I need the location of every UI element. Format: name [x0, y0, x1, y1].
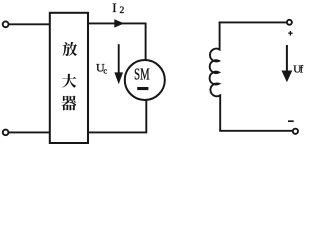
label da (amplifier text)	[62, 74, 76, 88]
motor U2 circle SM	[125, 60, 165, 100]
voltage arrow Uf	[286, 45, 288, 72]
svg-text:I: I	[112, 0, 116, 15]
motor minus-polarity bar	[137, 87, 148, 90]
svg-text:SM: SM	[134, 65, 150, 84]
polarity + at top-right terminal	[288, 31, 292, 36]
current arrow I2 on wire	[114, 19, 124, 27]
svg-text:c: c	[103, 65, 107, 75]
wire: inductor top to terminal +	[220, 21, 287, 23]
wire: inductor bottom to terminal -	[220, 130, 292, 132]
wire: bottom-left terminal to amplifier	[9, 131, 49, 133]
voltage arrow Uc	[118, 44, 120, 74]
inductor L1 feedback winding	[210, 22, 221, 130]
polarity - at bottom-right terminal	[288, 120, 294, 122]
wire: SM motor bottom to amplifier	[88, 101, 146, 132]
wire: amplifier output to SM motor top	[89, 23, 146, 59]
svg-text:2: 2	[120, 6, 125, 16]
label qi (amplifier text)	[61, 96, 76, 111]
terminal: top-right output +	[287, 20, 292, 25]
terminal: bottom-left input	[3, 130, 9, 136]
terminal: bottom-right output -	[293, 129, 298, 134]
amplifier U1 box	[50, 13, 88, 143]
wire: top-left terminal to amplifier	[9, 23, 49, 25]
label fang (amplifier text)	[63, 42, 78, 56]
terminal: top-left input	[3, 21, 9, 27]
